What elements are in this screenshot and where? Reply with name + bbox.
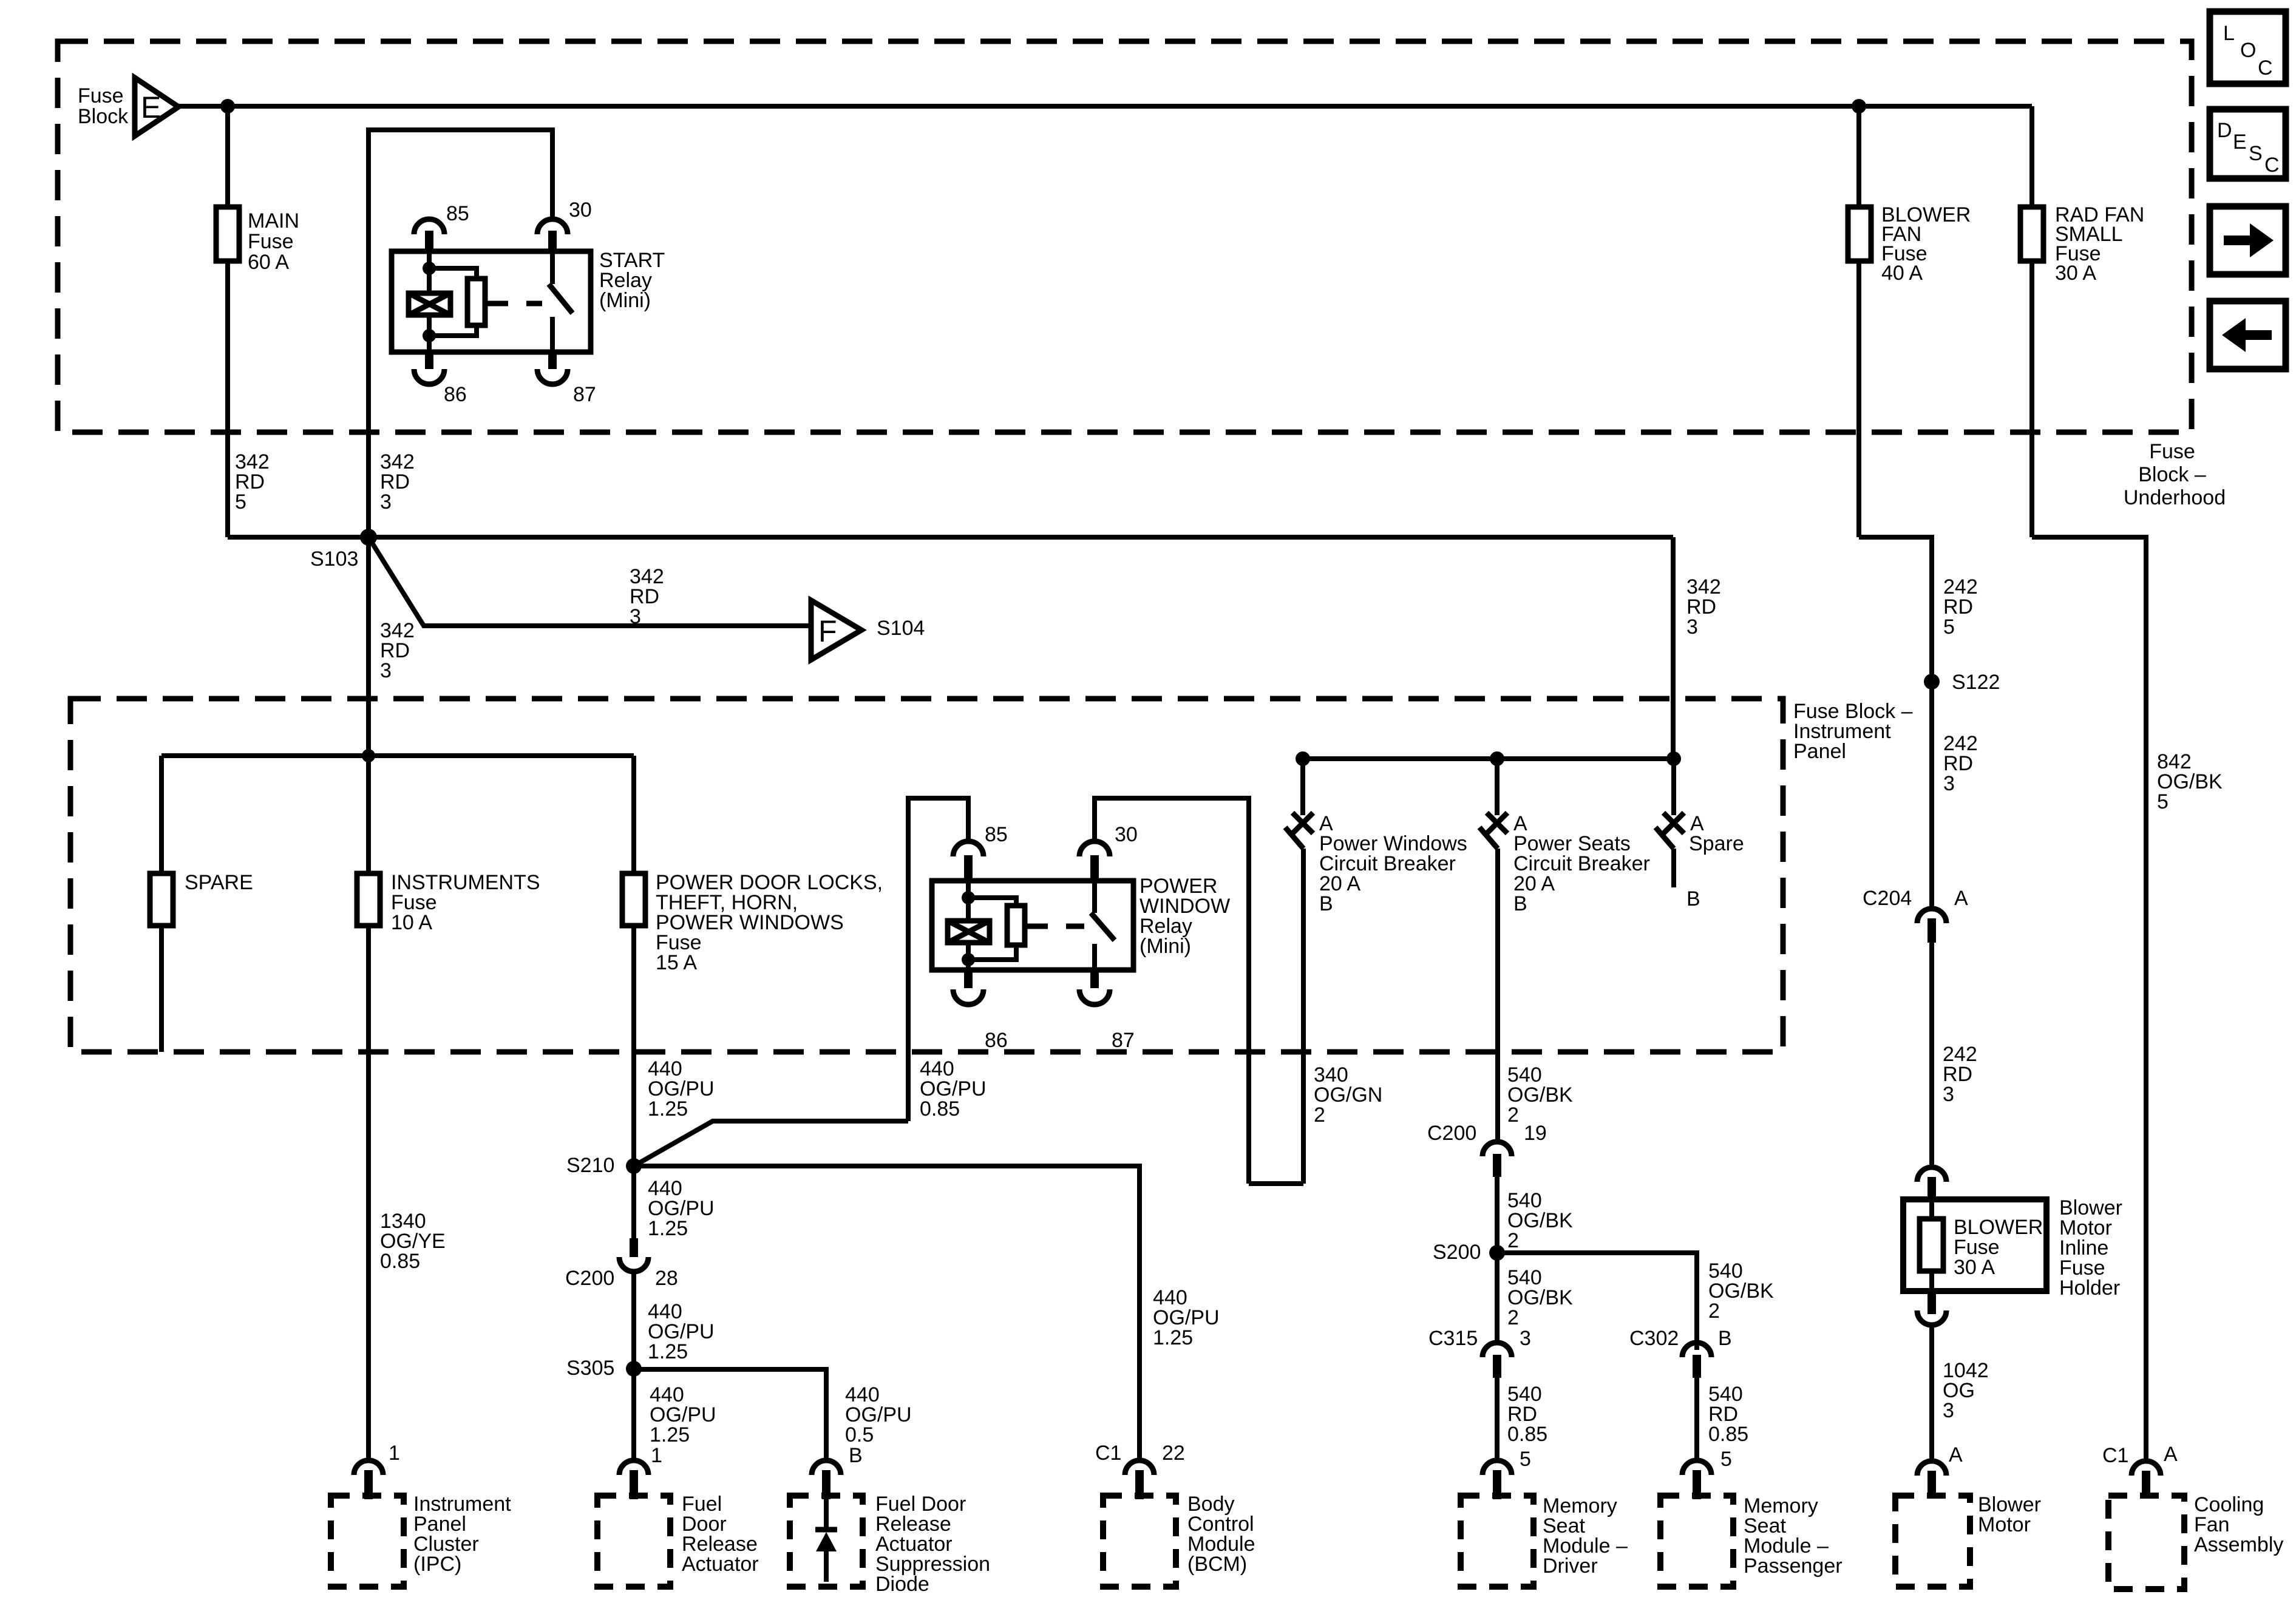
svg-text:3: 3 [1943, 1399, 1954, 1422]
box DESC [2210, 109, 2286, 178]
svg-text:22: 22 [1162, 1442, 1185, 1465]
wire: S200 branch to C302 [1497, 1253, 1697, 1350]
splice S305 [566, 1357, 642, 1380]
svg-text:F: F [818, 614, 837, 648]
relay box [932, 881, 1133, 970]
label: 540 OG/BK 2 (below C200) [1507, 1189, 1573, 1252]
module: Fuel Door Release Actuator Suppression Diode dashed box [790, 1493, 990, 1596]
svg-text:Block –: Block – [2138, 463, 2206, 486]
svg-text:3: 3 [1520, 1327, 1531, 1350]
box LOC [2210, 12, 2286, 84]
wire: C302 to passenger module [1694, 1378, 1699, 1460]
svg-text:5: 5 [2157, 790, 2169, 813]
svg-text:3: 3 [630, 605, 641, 628]
svg-text:S103: S103 [310, 547, 358, 571]
fuse block underhood dashed box [58, 41, 2192, 432]
switch [550, 251, 555, 284]
node: junction at MAIN fuse [220, 99, 235, 114]
wire: C315 to driver module [1495, 1378, 1500, 1460]
wire: C200-19 to S200 [1495, 1177, 1500, 1343]
svg-text:1.25: 1.25 [650, 1423, 690, 1446]
svg-text:C302: C302 [1629, 1327, 1679, 1350]
svg-text:2: 2 [1708, 1300, 1720, 1323]
dashed actuator link [485, 301, 542, 307]
svg-text:86: 86 [444, 383, 467, 406]
label: 440 OG/PU 0.85 (relay85 out) [920, 1057, 987, 1120]
svg-text:A: A [1949, 1443, 1963, 1466]
connector C200 pin 28 [565, 1238, 678, 1290]
svg-text:D: D [2217, 119, 2232, 142]
svg-text:B: B [1513, 892, 1527, 915]
svg-text:B: B [1686, 887, 1700, 910]
svg-text:L: L [2223, 22, 2235, 45]
fuse POWER DOOR LOCKS 15 A [622, 871, 883, 974]
svg-text:A: A [1954, 887, 1968, 910]
svg-text:1.25: 1.25 [648, 1097, 688, 1120]
label: 440 OG/PU 1.25 (below S210) [648, 1177, 715, 1240]
module: Fuel Door Release Actuator dashed box [597, 1493, 759, 1587]
label: 540 OG/BK 2 (passenger) [1708, 1259, 1774, 1323]
svg-text:30: 30 [569, 198, 592, 222]
svg-text:E: E [141, 90, 161, 124]
connector C200 pin 19 [1427, 1122, 1547, 1177]
svg-text:30 A: 30 A [1954, 1256, 1995, 1279]
box arrow right [2210, 206, 2286, 274]
label: 342 RD 3 (below S103) [380, 619, 415, 682]
svg-text:O: O [2240, 39, 2256, 62]
svg-text:1.25: 1.25 [648, 1217, 688, 1240]
connector F triangle S104 [811, 600, 925, 660]
label: Fuse Block [78, 84, 129, 128]
fuse MAIN 60 A [216, 207, 299, 274]
svg-text:2: 2 [1314, 1103, 1325, 1127]
svg-text:1: 1 [389, 1442, 400, 1465]
resistor [1007, 906, 1025, 945]
fuse INSTRUMENTS 10 A [357, 871, 540, 934]
svg-text:5: 5 [1520, 1448, 1531, 1471]
svg-text:0.5: 0.5 [845, 1423, 874, 1446]
wire: S103 diagonal to S104 [369, 537, 811, 626]
pin 86 [964, 970, 973, 988]
splice S122 [1924, 671, 2000, 694]
label: Fuse Block - Instrument Panel [1793, 700, 1913, 763]
svg-text:C: C [2258, 56, 2273, 80]
wire: window relay pin30 loop [1095, 798, 1249, 1184]
svg-text:(BCM): (BCM) [1187, 1553, 1247, 1576]
svg-text:3: 3 [1943, 1083, 1954, 1106]
connector: blower motor pin A [1917, 1443, 1963, 1498]
svg-text:(Mini): (Mini) [599, 289, 651, 312]
wire: relay85 jog to S210 [634, 1121, 908, 1166]
wire: top feed bus [178, 104, 2032, 109]
circuit breaker: Spare [1656, 759, 1744, 910]
svg-text:5: 5 [1943, 615, 1955, 639]
wire: MAIN fuse drop [225, 106, 230, 537]
svg-text:Fuse: Fuse [2149, 440, 2195, 463]
wire: breaker bus [1296, 751, 1681, 766]
module: Cooling Fan Assembly dashed box [2108, 1493, 2283, 1589]
wire: RAD FAN fuse drop [2032, 106, 2146, 1461]
coil wire + dots [966, 881, 971, 921]
svg-text:1.25: 1.25 [648, 1340, 688, 1363]
label: 540 RD 0.85 (passenger) [1708, 1383, 1748, 1446]
label: Blower Motor Inline Fuse Holder [2059, 1196, 2122, 1300]
pin 87 [1090, 970, 1099, 988]
resistor [467, 279, 485, 325]
pin 85 arc [953, 841, 983, 856]
wire: INSTRUMENTS fuse leads [366, 756, 371, 1460]
label: 540 OG/BK 2 (above C200) [1507, 1063, 1573, 1127]
svg-text:S122: S122 [1952, 671, 2000, 694]
fuse RAD FAN SMALL 30 A [2020, 203, 2144, 285]
label: 342 RD 3 (relay loop wire) [380, 450, 415, 514]
svg-text:S104: S104 [877, 617, 925, 640]
connector C302 pin B [1629, 1327, 1732, 1378]
svg-text:Fuse: Fuse [248, 230, 294, 253]
label: 242 RD 5 [1943, 575, 1978, 639]
label: 440 OG/PU 1.25 (BCM wire) [1153, 1286, 1220, 1349]
svg-text:40 A: 40 A [1881, 262, 1923, 285]
connector E triangle [135, 78, 178, 136]
svg-text:MAIN: MAIN [248, 209, 299, 232]
svg-text:86: 86 [985, 1029, 1008, 1052]
svg-text:S200: S200 [1433, 1241, 1481, 1264]
relay box [392, 251, 591, 352]
label: 1340 OG/YE 0.85 (IPC wire) [380, 1210, 446, 1273]
svg-text:Underhood: Underhood [2124, 486, 2226, 509]
wire: to blower fuse holder [1929, 943, 1934, 1167]
svg-text:B: B [1718, 1327, 1732, 1350]
connector C315 pin 3 [1428, 1327, 1531, 1378]
fuse BLOWER FAN 40 A [1848, 203, 1971, 285]
svg-text:0.85: 0.85 [920, 1097, 960, 1120]
circuit breaker: Power Seats 20 A [1479, 759, 1650, 1142]
label: 242 RD 3 (above C204) [1943, 732, 1978, 795]
label: 842 OG/BK 5 [2157, 750, 2223, 813]
svg-text:B: B [849, 1444, 863, 1467]
module: Memory Seat Module Driver dashed box [1461, 1494, 1628, 1587]
pin 86 [425, 352, 433, 369]
svg-text:Assembly: Assembly [2194, 1533, 2283, 1556]
svg-text:C1: C1 [1095, 1442, 1121, 1465]
label: 540 RD 0.85 (driver) [1507, 1383, 1547, 1446]
svg-text:19: 19 [1524, 1122, 1547, 1145]
svg-text:3: 3 [380, 490, 392, 514]
label: 440 OG/PU 1.25 (below C200) [648, 1300, 715, 1363]
connector C204 pin A [1863, 887, 1968, 943]
connector: BCM C1 pin 22 [1095, 1442, 1185, 1499]
svg-text:87: 87 [573, 383, 596, 406]
pin 30 arc [537, 219, 568, 234]
splice S103 [310, 529, 377, 571]
wire: SPARE fuse leads [159, 756, 164, 1052]
pin 87 [548, 352, 557, 369]
svg-text:5: 5 [235, 490, 246, 514]
svg-text:1.25: 1.25 [1153, 1326, 1193, 1349]
svg-text:3: 3 [380, 659, 392, 682]
svg-text:C315: C315 [1428, 1327, 1478, 1350]
svg-text:30: 30 [1115, 823, 1138, 846]
coil box [409, 293, 450, 315]
fuse SPARE [150, 871, 253, 926]
svg-text:C200: C200 [1427, 1122, 1476, 1145]
connector: suppression diode pin B [812, 1444, 863, 1499]
svg-text:60 A: 60 A [248, 251, 289, 274]
label: Fuse Block - Underhood [2124, 440, 2226, 509]
svg-text:2: 2 [1507, 1103, 1519, 1127]
svg-text:S305: S305 [566, 1357, 614, 1380]
module: Body Control Module dashed box [1103, 1493, 1255, 1587]
svg-text:2: 2 [1507, 1229, 1519, 1252]
label: 340 OG/GN 2 [1314, 1063, 1382, 1127]
connector: fuse holder input [1917, 1167, 1946, 1202]
label: 342 RD 3 (breaker feed) [1686, 575, 1721, 639]
svg-text:C1: C1 [2102, 1444, 2128, 1467]
svg-text:Motor: Motor [1978, 1513, 2031, 1536]
wire: C200 to S305 [631, 1272, 636, 1460]
svg-text:0.85: 0.85 [380, 1250, 420, 1273]
label: 440 OG/PU 1.25 (PDL out) [648, 1057, 715, 1120]
wire: IP fuse bus [161, 749, 634, 762]
svg-text:1: 1 [651, 1444, 662, 1467]
wire: BLOWER FAN fuse drop [1852, 99, 1932, 909]
coil wire + dots [427, 251, 432, 293]
wire: S103 horizontal bus [228, 535, 1673, 540]
svg-text:C204: C204 [1863, 887, 1912, 910]
wire: 1042 OG to blower motor [1929, 1325, 1934, 1461]
wire: right drop to breaker bus [1671, 537, 1676, 759]
wire: IP feed vertical below S103 [366, 537, 371, 756]
wire: START relay pin30 loop [369, 130, 552, 537]
pin 30 arc [1079, 841, 1110, 856]
svg-text:A: A [2164, 1443, 2178, 1466]
svg-text:Block: Block [78, 105, 129, 128]
relay K2 POWER WINDOW (Mini) [932, 823, 1230, 1052]
label: 440 OG/PU 1.25 (below S305) [650, 1383, 716, 1446]
svg-text:Passenger: Passenger [1744, 1554, 1843, 1578]
svg-text:(Mini): (Mini) [1140, 935, 1191, 958]
svg-text:(IPC): (IPC) [413, 1553, 461, 1576]
svg-text:Holder: Holder [2059, 1276, 2120, 1300]
svg-text:Actuator: Actuator [682, 1553, 759, 1576]
svg-text:C: C [2264, 154, 2280, 177]
svg-text:3: 3 [1686, 615, 1698, 639]
label: 440 OG/PU 0.5 (diode branch) [845, 1383, 912, 1446]
wire: U link relay30 to breaker [1249, 1181, 1303, 1186]
module: Memory Seat Module Passenger dashed box [1660, 1494, 1843, 1587]
wire: S210 to BCM [634, 1166, 1140, 1460]
label: 540 OG/BK 2 (driver) [1507, 1266, 1573, 1329]
svg-text:Diode: Diode [875, 1573, 929, 1596]
svg-text:0.85: 0.85 [1708, 1423, 1748, 1446]
diode D1 (inside box) [815, 1497, 837, 1582]
label: 342 RD 5 (main fuse wire) [235, 450, 270, 514]
svg-text:85: 85 [446, 202, 469, 225]
splice S210 [566, 1154, 642, 1177]
fuse BLOWER 30 A (inline) [1920, 1216, 2043, 1279]
svg-text:85: 85 [985, 823, 1008, 846]
connector: fuel door actuator pin 1 [619, 1444, 662, 1499]
dashed actuator link [1025, 924, 1084, 929]
svg-text:28: 28 [655, 1267, 678, 1290]
label: 342 RD 3 (S104 wire) [630, 565, 664, 628]
svg-text:E: E [2233, 131, 2247, 154]
switch [1092, 881, 1097, 913]
connector: passenger module pin 5 [1682, 1448, 1732, 1499]
connector: IPC pin 1 [354, 1442, 400, 1499]
connector: driver module pin 5 [1483, 1448, 1531, 1499]
svg-text:0.85: 0.85 [1507, 1423, 1547, 1446]
svg-text:S210: S210 [566, 1154, 614, 1177]
svg-text:C200: C200 [565, 1267, 614, 1290]
svg-text:Fuse: Fuse [78, 84, 124, 107]
svg-text:SPARE: SPARE [185, 871, 253, 894]
connector: fuse holder output [1917, 1291, 1946, 1325]
svg-text:30 A: 30 A [2055, 262, 2096, 285]
svg-text:10 A: 10 A [391, 911, 432, 934]
box arrow left [2210, 301, 2286, 369]
svg-text:S: S [2249, 142, 2263, 165]
svg-text:2: 2 [1507, 1306, 1519, 1329]
svg-text:Driver: Driver [1543, 1554, 1598, 1578]
fuse block instrument panel dashed box [70, 699, 1783, 1052]
label: 1042 OG 3 [1943, 1359, 1989, 1422]
pin 85 arc [414, 219, 444, 234]
svg-text:Spare: Spare [1689, 832, 1744, 855]
relay U1 START (Mini) [392, 198, 665, 406]
svg-text:Panel: Panel [1793, 740, 1846, 763]
svg-text:B: B [1319, 892, 1333, 915]
svg-text:87: 87 [1112, 1029, 1135, 1052]
connector: cooling fan C1 pin A [2102, 1443, 2178, 1498]
blower motor inline fuse holder box [1903, 1199, 2046, 1291]
wire: S305 branch to diode [634, 1369, 826, 1460]
svg-text:5: 5 [1720, 1448, 1732, 1471]
wire: PDL fuse leads [631, 756, 636, 1238]
svg-text:3: 3 [1943, 772, 1955, 795]
module: Instrument Panel Cluster dashed box [331, 1493, 511, 1587]
circuit breaker: Power Windows 20 A [1285, 759, 1467, 1184]
label: 242 RD 3 (below C204) [1943, 1043, 1977, 1106]
wire: window relay pin85 loop [908, 798, 968, 1121]
splice S200 [1433, 1241, 1505, 1264]
coil box [948, 921, 990, 943]
svg-text:15 A: 15 A [656, 951, 697, 974]
module: Blower Motor dashed box [1895, 1493, 2041, 1587]
